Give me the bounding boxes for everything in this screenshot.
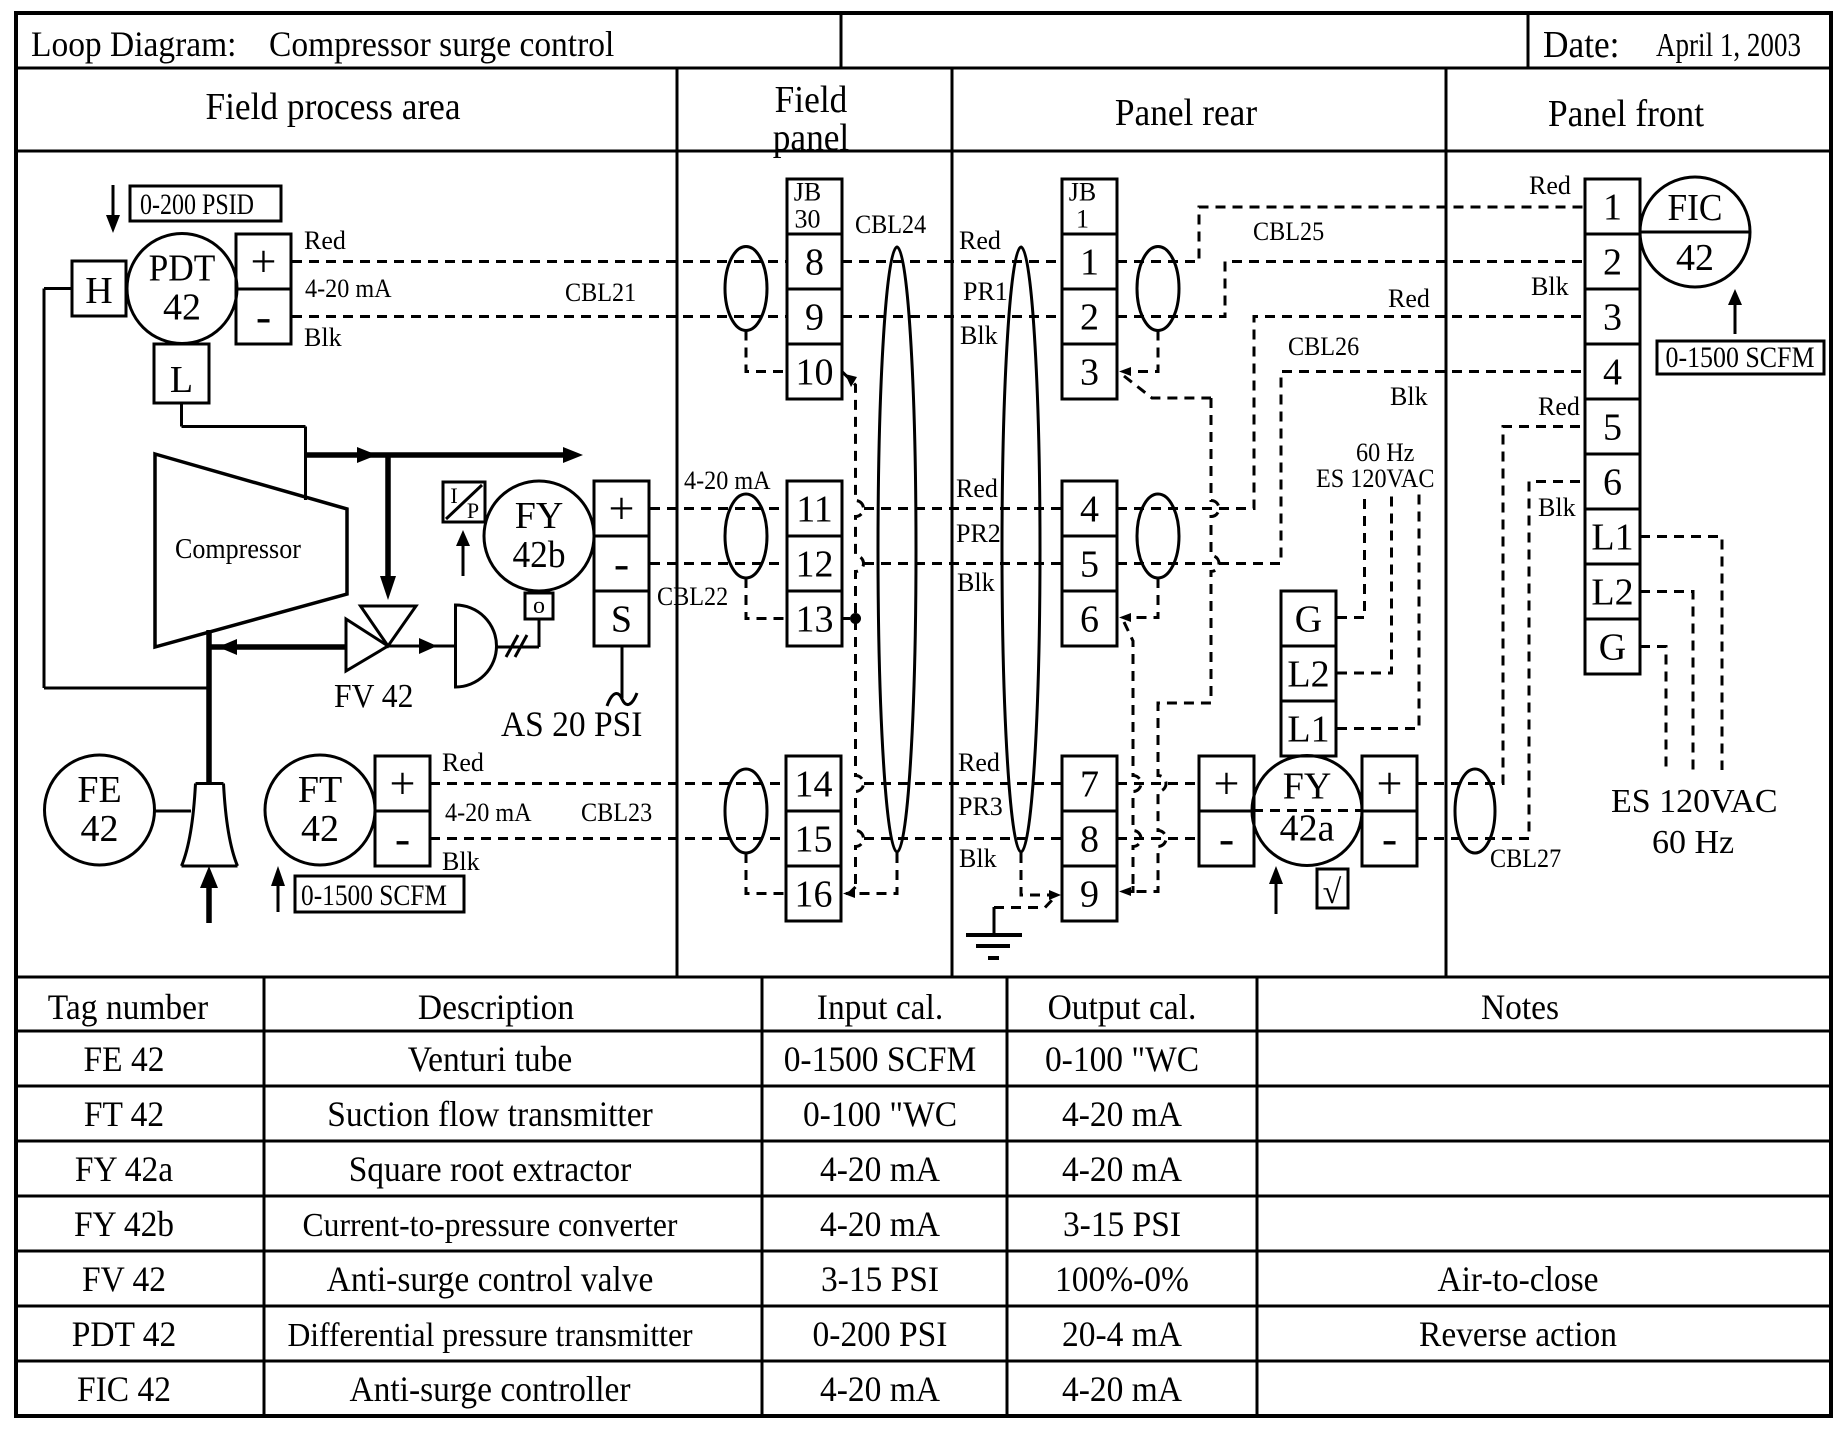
svg-text:FV 42: FV 42: [334, 678, 413, 715]
svg-text:-: -: [1219, 813, 1234, 864]
svg-text:0-200 PSID: 0-200 PSID: [140, 188, 254, 221]
svg-text:16: 16: [795, 874, 833, 916]
svg-text:Blk: Blk: [1531, 272, 1569, 301]
svg-text:JB: JB: [794, 178, 821, 207]
svg-text:Suction flow transmitter: Suction flow transmitter: [327, 1094, 653, 1134]
svg-text:CBL24: CBL24: [855, 210, 926, 239]
svg-text:Output cal.: Output cal.: [1048, 987, 1197, 1027]
svg-text:FY 42a: FY 42a: [75, 1149, 173, 1189]
svg-text:Blk: Blk: [1390, 382, 1428, 411]
svg-text:-: -: [395, 813, 410, 864]
svg-text:CBL25: CBL25: [1253, 217, 1324, 246]
svg-text:Notes: Notes: [1481, 987, 1559, 1027]
svg-text:Blk: Blk: [1538, 493, 1576, 522]
svg-text:Field: Field: [775, 79, 848, 121]
svg-text:Red: Red: [1388, 284, 1430, 313]
svg-text:4-20 mA: 4-20 mA: [820, 1149, 940, 1189]
svg-text:Red: Red: [958, 748, 1000, 777]
svg-text:4-20 mA: 4-20 mA: [1062, 1094, 1182, 1134]
svg-text:0-200 PSI: 0-200 PSI: [813, 1314, 948, 1354]
svg-text:FE 42: FE 42: [84, 1039, 165, 1079]
svg-text:Field process area: Field process area: [205, 86, 460, 128]
svg-text:3-15 PSI: 3-15 PSI: [1063, 1204, 1181, 1244]
svg-text:-: -: [256, 291, 271, 342]
svg-text:0-1500 SCFM: 0-1500 SCFM: [301, 879, 447, 912]
svg-text:Blk: Blk: [959, 844, 997, 873]
svg-text:CBL22: CBL22: [657, 582, 728, 611]
svg-text:I: I: [450, 483, 457, 508]
svg-text:+: +: [251, 236, 277, 287]
svg-text:0-1500 SCFM: 0-1500 SCFM: [784, 1039, 977, 1079]
svg-text:42: 42: [81, 808, 119, 850]
svg-text:Loop Diagram:: Loop Diagram:: [31, 24, 237, 64]
svg-text:Venturi tube: Venturi tube: [408, 1039, 573, 1079]
svg-text:Anti-surge control valve: Anti-surge control valve: [327, 1259, 654, 1299]
svg-text:Compressor surge control: Compressor surge control: [269, 24, 614, 64]
svg-text:4-20 mA: 4-20 mA: [1062, 1369, 1182, 1409]
svg-text:FY: FY: [1283, 766, 1332, 808]
svg-text:6: 6: [1080, 599, 1099, 641]
svg-text:April 1, 2003: April 1, 2003: [1656, 27, 1801, 64]
svg-text:100%-0%: 100%-0%: [1055, 1259, 1189, 1299]
svg-text:12: 12: [796, 544, 834, 586]
svg-text:L2: L2: [1591, 572, 1633, 614]
svg-text:42: 42: [301, 808, 339, 850]
svg-text:FV 42: FV 42: [82, 1259, 166, 1299]
svg-text:11: 11: [796, 489, 833, 531]
svg-text:JB: JB: [1069, 178, 1096, 207]
svg-text:1: 1: [1603, 187, 1622, 229]
svg-text:S: S: [611, 599, 632, 641]
svg-text:FY: FY: [515, 495, 564, 537]
svg-text:L2: L2: [1287, 654, 1329, 696]
svg-text:Blk: Blk: [960, 321, 998, 350]
svg-text:FIC: FIC: [1668, 187, 1723, 229]
svg-text:Differential pressure transmit: Differential pressure transmitter: [287, 1317, 693, 1354]
svg-text:14: 14: [795, 764, 833, 806]
svg-text:4: 4: [1080, 489, 1099, 531]
svg-text:Tag number: Tag number: [48, 987, 208, 1027]
svg-text:-: -: [1382, 813, 1397, 864]
svg-text:+: +: [390, 758, 416, 809]
svg-text:42: 42: [163, 287, 201, 329]
svg-text:Panel front: Panel front: [1548, 93, 1705, 135]
svg-text:9: 9: [805, 297, 824, 339]
svg-text:ES 120VAC: ES 120VAC: [1611, 783, 1778, 820]
svg-text:Square root extractor: Square root extractor: [349, 1149, 632, 1189]
svg-text:Input cal.: Input cal.: [817, 987, 943, 1027]
svg-text:6: 6: [1603, 462, 1622, 504]
svg-text:Blk: Blk: [304, 323, 342, 352]
svg-text:20-4 mA: 20-4 mA: [1062, 1314, 1182, 1354]
svg-text:3: 3: [1603, 297, 1622, 339]
svg-text:PR3: PR3: [958, 792, 1003, 821]
svg-text:CBL26: CBL26: [1288, 332, 1359, 361]
svg-text:0-1500 SCFM: 0-1500 SCFM: [1666, 341, 1815, 374]
svg-text:Red: Red: [442, 748, 484, 777]
svg-text:L1: L1: [1287, 709, 1329, 751]
svg-text:ES 120VAC: ES 120VAC: [1316, 464, 1435, 493]
svg-text:3-15 PSI: 3-15 PSI: [821, 1259, 939, 1299]
svg-text:4-20 mA: 4-20 mA: [820, 1204, 940, 1244]
svg-text:10: 10: [796, 352, 834, 394]
svg-text:4-20 mA: 4-20 mA: [820, 1369, 940, 1409]
svg-text:CBL27: CBL27: [1490, 844, 1561, 873]
svg-text:5: 5: [1603, 407, 1622, 449]
svg-text:Air-to-close: Air-to-close: [1437, 1259, 1598, 1299]
svg-text:8: 8: [1080, 819, 1099, 861]
svg-text:4-20 mA: 4-20 mA: [1062, 1149, 1182, 1189]
svg-text:60 Hz: 60 Hz: [1652, 824, 1734, 861]
svg-text:PR2: PR2: [956, 519, 1001, 548]
svg-text:P: P: [467, 498, 479, 523]
svg-text:1: 1: [1076, 205, 1089, 234]
svg-text:+: +: [1377, 758, 1403, 809]
svg-text:+: +: [609, 483, 635, 534]
svg-text:FE: FE: [77, 769, 121, 811]
svg-text:FIC 42: FIC 42: [77, 1369, 171, 1409]
svg-text:42b: 42b: [513, 534, 566, 576]
svg-text:Red: Red: [1529, 171, 1571, 200]
svg-text:0-100 "WC: 0-100 "WC: [1045, 1039, 1199, 1079]
svg-text:3: 3: [1080, 352, 1099, 394]
svg-text:o: o: [533, 593, 545, 619]
svg-text:2: 2: [1080, 297, 1099, 339]
svg-text:7: 7: [1080, 764, 1099, 806]
svg-text:L: L: [170, 359, 193, 401]
svg-text:Red: Red: [304, 226, 346, 255]
svg-text:-: -: [614, 538, 629, 589]
svg-text:L1: L1: [1591, 517, 1633, 559]
svg-text:2: 2: [1603, 242, 1622, 284]
svg-text:PDT 42: PDT 42: [72, 1314, 177, 1354]
svg-text:Red: Red: [959, 226, 1001, 255]
svg-text:PDT: PDT: [149, 248, 216, 290]
svg-text:Blk: Blk: [442, 847, 480, 876]
svg-text:√: √: [1323, 874, 1342, 911]
svg-text:+: +: [1214, 758, 1240, 809]
svg-text:FT 42: FT 42: [84, 1094, 164, 1134]
svg-text:60 Hz: 60 Hz: [1356, 438, 1414, 467]
svg-text:0-100 "WC: 0-100 "WC: [803, 1094, 957, 1134]
svg-text:Description: Description: [418, 987, 574, 1027]
svg-text:Current-to-pressure converter: Current-to-pressure converter: [303, 1207, 679, 1244]
svg-text:CBL21: CBL21: [565, 278, 636, 307]
svg-text:H: H: [85, 270, 112, 312]
svg-text:8: 8: [805, 242, 824, 284]
svg-text:Compressor: Compressor: [175, 534, 302, 565]
svg-text:9: 9: [1080, 874, 1099, 916]
svg-text:FT: FT: [298, 769, 342, 811]
svg-text:Blk: Blk: [957, 568, 995, 597]
svg-text:Date:: Date:: [1543, 24, 1620, 66]
svg-text:Red: Red: [1538, 392, 1580, 421]
svg-text:Red: Red: [956, 474, 998, 503]
svg-text:5: 5: [1080, 544, 1099, 586]
svg-text:4-20 mA: 4-20 mA: [684, 466, 771, 495]
svg-text:15: 15: [795, 819, 833, 861]
svg-text:4: 4: [1603, 352, 1622, 394]
svg-text:4-20 mA: 4-20 mA: [445, 798, 532, 827]
svg-text:42: 42: [1676, 237, 1714, 279]
svg-text:42a: 42a: [1280, 808, 1335, 850]
svg-text:CBL23: CBL23: [581, 798, 652, 827]
svg-text:G: G: [1295, 599, 1322, 641]
svg-text:Anti-surge controller: Anti-surge controller: [349, 1369, 630, 1409]
svg-text:13: 13: [796, 599, 834, 641]
svg-text:panel: panel: [773, 117, 850, 159]
svg-text:AS 20 PSI: AS 20 PSI: [501, 704, 642, 744]
svg-text:30: 30: [795, 205, 821, 234]
svg-text:PR1: PR1: [963, 277, 1008, 306]
svg-text:G: G: [1599, 627, 1626, 669]
svg-text:Panel rear: Panel rear: [1115, 92, 1258, 134]
svg-text:1: 1: [1080, 242, 1099, 284]
svg-text:FY 42b: FY 42b: [74, 1204, 174, 1244]
svg-text:4-20 mA: 4-20 mA: [305, 274, 392, 303]
svg-text:Reverse action: Reverse action: [1419, 1314, 1617, 1354]
